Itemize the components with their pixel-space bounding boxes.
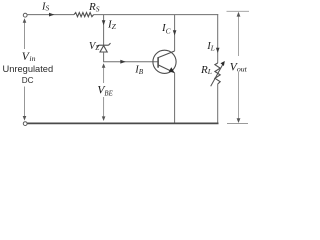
current arrow IB <box>120 60 126 64</box>
label Unregulated DC <box>3 64 54 85</box>
resistor RS <box>74 13 94 17</box>
terminal: input top-left <box>23 13 27 17</box>
svg-text:IZ: IZ <box>107 18 117 31</box>
svg-text:IS: IS <box>41 1 50 12</box>
svg-text:IB: IB <box>134 64 144 76</box>
svg-text:IL: IL <box>206 41 215 53</box>
wire: top rail left segment <box>27 14 74 16</box>
wire: collector to top rail <box>174 15 176 51</box>
wire: right rail lower <box>217 84 219 123</box>
wire: emitter to bottom rail <box>174 73 176 124</box>
svg-text:VBE: VBE <box>97 84 113 97</box>
zener diode VZ <box>97 43 111 52</box>
wire: bottom rail <box>27 122 219 124</box>
current arrow IL <box>216 48 220 53</box>
wire: zener anode to transistor base <box>104 52 158 62</box>
svg-text:Vout: Vout <box>230 61 248 73</box>
resistor RL (variable load) <box>211 61 225 86</box>
wire: zener branch from top rail <box>103 15 105 45</box>
svg-text:Vin: Vin <box>22 51 36 63</box>
svg-text:RS: RS <box>88 1 100 14</box>
transistor Q1 (NPN) <box>153 50 176 73</box>
annotation: Vin measurement arrow <box>23 18 27 120</box>
svg-text:VZ: VZ <box>89 41 99 52</box>
wire: right rail upper <box>217 14 219 63</box>
terminal: input bottom-left <box>23 122 27 126</box>
wire: top rail right segment <box>94 14 219 16</box>
current arrow IS <box>49 13 55 17</box>
annotation: VBE measurement arrow <box>102 63 106 121</box>
svg-text:DC: DC <box>22 76 34 85</box>
svg-text:RL: RL <box>200 64 212 76</box>
current arrow IC <box>173 30 177 35</box>
svg-text:IC: IC <box>161 22 172 36</box>
annotation: Vout measurement arrow <box>227 11 250 123</box>
svg-text:Unregulated: Unregulated <box>3 64 54 74</box>
current arrow IZ <box>102 20 106 25</box>
